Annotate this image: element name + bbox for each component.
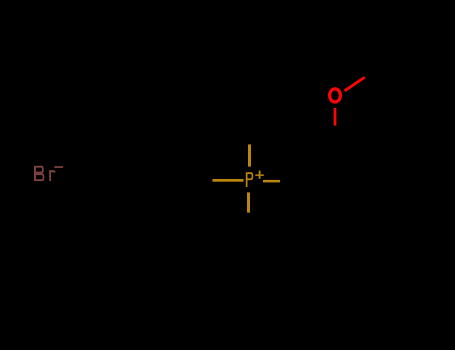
bond O-CH3 outer half (black-on-black) (367, 66, 388, 77)
bond P-aryl right (P half, orange) (263, 180, 280, 183)
bond P-phenyl up (P half, orange) (248, 144, 251, 166)
bond O-aryl down (O half, red) (334, 108, 337, 126)
bromide ion charge minus superscript (54, 166, 63, 168)
bond P-phenyl down (P half, orange) (247, 192, 250, 212)
phosphonium atom label P (246, 172, 253, 187)
phenyl ring (top, black-on-black skeleton) (209, 27, 291, 121)
bromide ion label Br (letter r) (49, 170, 55, 181)
ether oxygen atom label O (330, 89, 341, 102)
phosphonium charge plus superscript (255, 171, 263, 179)
bond O-CH3 diagonal (O half, red) (345, 77, 365, 91)
phenyl ring (bottom, black-on-black skeleton) (208, 236, 290, 330)
bond P-phenyl left (P half, orange) (213, 179, 244, 182)
phenyl ring (left, black-on-black skeleton) (115, 157, 197, 251)
methoxyphenyl ring (right, black-on-black skeleton) (294, 150, 376, 254)
bromide ion label Br (letter B) (34, 166, 44, 181)
